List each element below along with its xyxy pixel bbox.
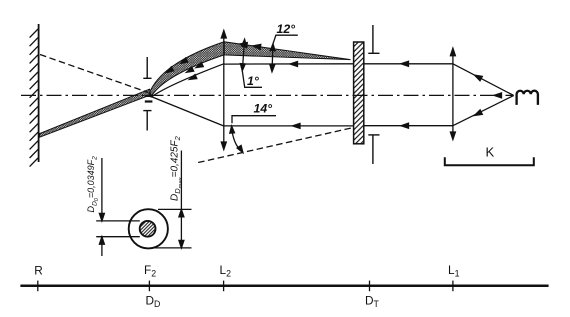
horizontal ray plate to L1 (upper) — [364, 63, 453, 65]
lens L2 (double-headed arrow) — [221, 31, 226, 150]
svg-text:14°: 14° — [254, 102, 273, 116]
scattering plate D_T (hatched) — [354, 42, 364, 144]
position scale baseline — [20, 285, 548, 288]
diaphragm D_D aperture hole edges — [145, 96, 153, 102]
12-degree angle dimension line — [270, 35, 298, 72]
arrow on axis near source — [494, 93, 502, 98]
horizontal ray plate to L1 (lower) — [364, 125, 453, 127]
plate aperture stop upper — [368, 25, 379, 53]
arrow on lower horizontal ray — [293, 123, 301, 128]
ray L1 bottom to source K — [453, 96, 514, 126]
svg-text:12°: 12° — [277, 22, 296, 36]
diaphragm D_D lower blade at F2 — [143, 111, 151, 131]
1-degree angle dimension line — [240, 39, 262, 87]
arrow on upper plate ray — [401, 61, 409, 66]
scale ticks R F2 L2 DT L1 — [38, 281, 453, 292]
detail: diaphragm aperture circle (outer D_max) — [129, 209, 168, 248]
ray focus F2 down to lens L2 bottom — [150, 96, 224, 126]
dimension D_D0: extension lines — [96, 221, 140, 237]
svg-text:1°: 1° — [247, 74, 259, 88]
dashed 14-degree ray from plate D_T — [197, 128, 351, 163]
svg-text:K: K — [486, 145, 495, 160]
horizontal ray lens L2 to plate (upper) — [224, 63, 354, 65]
dimension D_D0: dimension line with outside arrows — [99, 158, 104, 256]
arrow on upper horizontal ray — [290, 62, 298, 67]
arrow on lower plate ray — [401, 123, 409, 128]
dimension D_Dmax: extension lines — [153, 209, 192, 248]
14-degree angle arc — [230, 116, 276, 153]
optical axis (dash-dot centerline) — [21, 94, 513, 96]
plate aperture stop lower — [368, 135, 379, 164]
arrow on lower source ray — [475, 110, 483, 116]
hatched beam wedge (lens L2 to plate D_T, 12 deg cone) — [224, 42, 350, 60]
dimension D_Dmax: dimension line with inside arrows — [179, 151, 184, 248]
diaphragm D_D upper blade at F2 — [143, 57, 151, 78]
bracket for K — [445, 157, 534, 165]
ray direction arrows (between F2 and L2) — [167, 58, 204, 79]
dashed marginal ray (mirror top to focus F2) — [40, 55, 148, 93]
arrow on upper source ray — [475, 75, 483, 81]
lens L1 (double-headed arrow) — [450, 48, 455, 139]
detail: central spot (hatched inner circle) — [140, 221, 156, 237]
ray L1 top to source K — [453, 64, 514, 96]
mirror R — [30, 24, 39, 167]
svg-text:R: R — [34, 264, 43, 278]
ray direction arrows (band, right of L2) — [240, 43, 261, 50]
hatched beam wedge (focus F2 to lens L2) — [149, 42, 224, 97]
ray focus F2 to lens L2 edge — [151, 64, 224, 97]
horizontal ray lens L2 to plate (lower) — [224, 125, 354, 127]
lamp filament K (coil) — [517, 91, 538, 105]
hatched beam wedge (mirror to focus) — [40, 89, 151, 137]
